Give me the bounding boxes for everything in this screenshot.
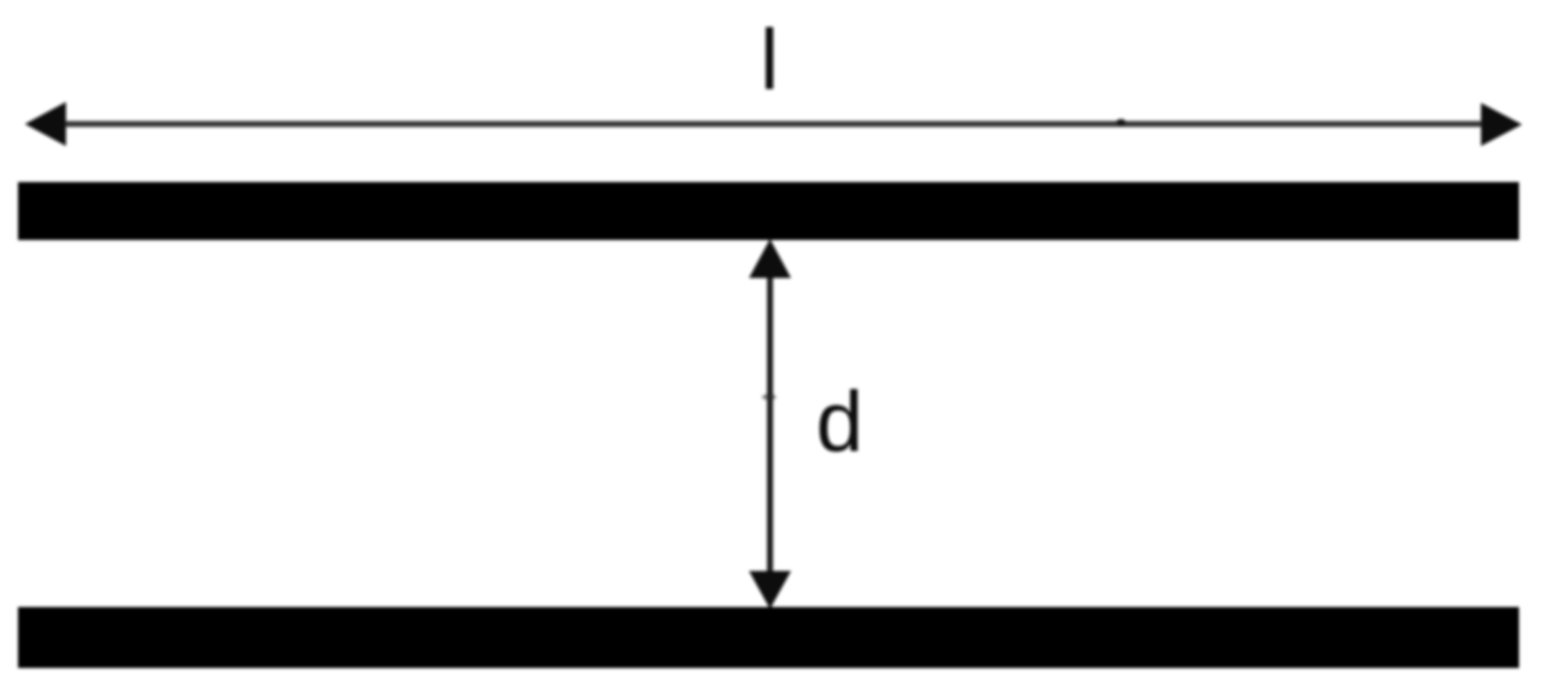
bottom arrowhead: [749, 571, 791, 609]
plate top (upper conductor): [18, 182, 1519, 240]
node: midpoint tick on d arrow: [762, 394, 776, 400]
svg-text:d: d: [816, 375, 863, 470]
right arrowhead: [1481, 103, 1522, 146]
dimension arrow l (horizontal double-headed): [25, 102, 1522, 146]
node: midpoint tick on l arrow: [1116, 119, 1126, 126]
wire: vertical arrow shaft: [767, 268, 773, 580]
wire: horizontal arrow shaft: [54, 121, 1492, 127]
dimension arrow d (vertical double-headed): [749, 239, 791, 609]
top arrowhead: [749, 239, 791, 278]
svg-text:l: l: [760, 13, 779, 108]
plate bottom (lower conductor): [18, 607, 1519, 668]
left arrowhead: [25, 102, 66, 146]
